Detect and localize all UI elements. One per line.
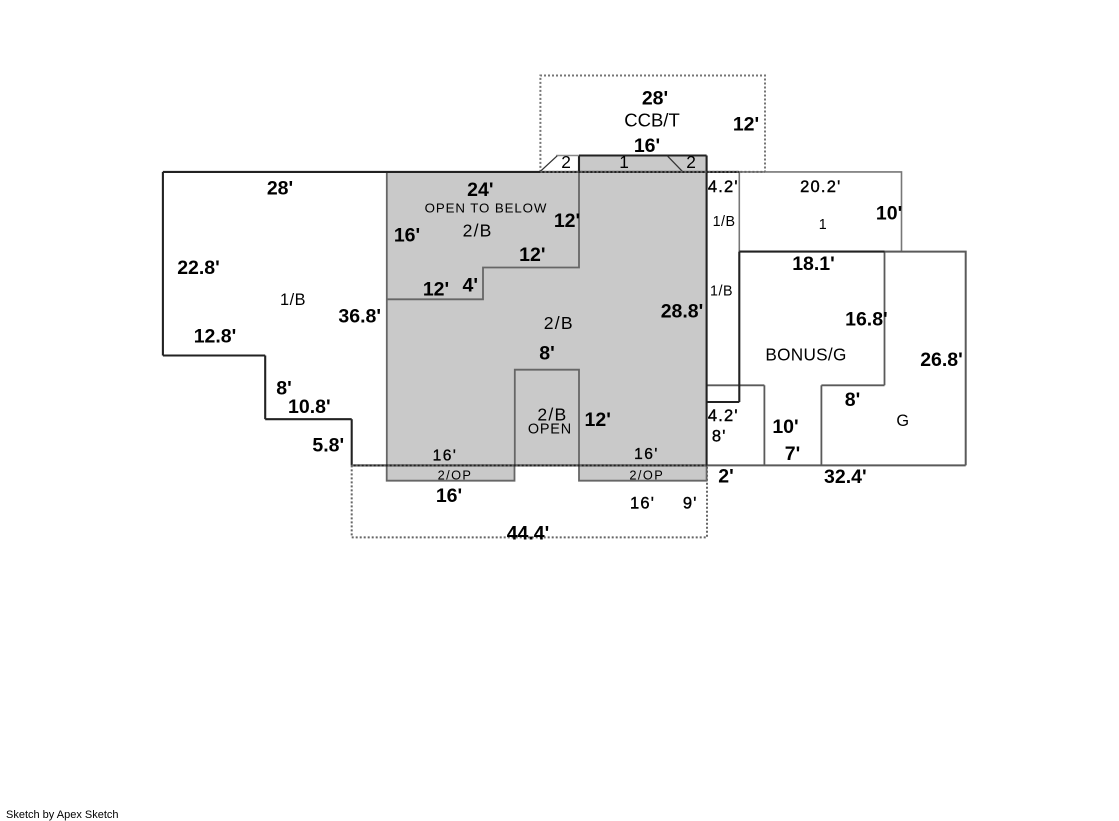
svg-text:8': 8' xyxy=(712,427,727,445)
svg-text:4': 4' xyxy=(463,275,478,297)
svg-text:4.2': 4.2' xyxy=(708,178,739,196)
svg-text:1/B: 1/B xyxy=(710,284,733,300)
svg-text:OPEN TO BELOW: OPEN TO BELOW xyxy=(425,201,548,216)
bump top edge xyxy=(579,154,707,156)
bonus notch left 10' xyxy=(763,385,765,465)
svg-text:10': 10' xyxy=(772,416,798,438)
step 12.8' xyxy=(163,354,265,356)
G bottom xyxy=(707,464,966,466)
2/B OPEN box xyxy=(515,370,579,466)
svg-text:16': 16' xyxy=(433,447,458,464)
bonus notch right 10' xyxy=(820,385,822,465)
svg-text:16.8': 16.8' xyxy=(845,309,888,331)
bonus top wall 18.1' xyxy=(739,251,884,253)
svg-text:10': 10' xyxy=(876,203,902,225)
svg-text:1/B: 1/B xyxy=(713,214,736,230)
svg-text:24': 24' xyxy=(467,179,493,201)
svg-text:12': 12' xyxy=(733,114,759,136)
svg-text:BONUS/G: BONUS/G xyxy=(765,345,846,365)
gray right 2/OP tab fill xyxy=(579,465,707,480)
area labels xyxy=(280,110,910,483)
garage G outline xyxy=(885,252,966,466)
bump diagonal right xyxy=(667,156,682,172)
svg-text:5.8': 5.8' xyxy=(312,435,344,457)
bonus/G right edge xyxy=(884,252,886,386)
right 2/OP tab outline xyxy=(579,465,707,480)
svg-text:28': 28' xyxy=(642,88,668,110)
gray second-floor fill 2/B main xyxy=(387,172,707,466)
dotted 44.4 rectangle xyxy=(352,172,765,538)
svg-text:26.8': 26.8' xyxy=(920,349,963,371)
svg-text:16': 16' xyxy=(436,485,462,507)
svg-text:16': 16' xyxy=(394,225,420,247)
bonus bottom left segment xyxy=(707,384,764,386)
gray area left edge xyxy=(386,172,388,466)
svg-text:1/B: 1/B xyxy=(280,291,306,309)
svg-text:16': 16' xyxy=(634,135,660,157)
gray bump fill (1-story section top) xyxy=(579,156,707,172)
svg-text:2/B: 2/B xyxy=(544,313,574,333)
svg-text:28.8': 28.8' xyxy=(661,301,704,323)
svg-text:2/OP: 2/OP xyxy=(438,467,473,482)
bottom main wall xyxy=(352,464,707,466)
svg-text:28': 28' xyxy=(267,178,293,200)
bump trapezoid top gray segment xyxy=(556,155,579,157)
svg-text:12': 12' xyxy=(585,409,611,431)
strip right wall xyxy=(738,252,740,402)
"1" rect left edge xyxy=(738,172,740,252)
top main wall xyxy=(163,171,739,173)
right main wall xyxy=(706,156,708,466)
svg-text:16': 16' xyxy=(634,446,659,463)
svg-text:1: 1 xyxy=(619,152,629,172)
svg-text:32.4': 32.4' xyxy=(824,466,867,488)
svg-text:2/OP: 2/OP xyxy=(629,467,664,482)
svg-text:10.8': 10.8' xyxy=(288,396,331,418)
first floor "1" rectangle top right xyxy=(739,172,901,252)
dotted CCB/T rectangle xyxy=(540,76,765,172)
step down 5.8' xyxy=(351,419,353,465)
svg-text:16': 16' xyxy=(630,495,655,513)
svg-text:2: 2 xyxy=(686,152,696,172)
main black walls xyxy=(163,156,885,466)
svg-text:OPEN: OPEN xyxy=(528,421,572,437)
svg-text:18.1': 18.1' xyxy=(792,253,835,275)
svg-text:22.8': 22.8' xyxy=(177,257,220,279)
step 10.8' xyxy=(265,418,352,420)
svg-text:G: G xyxy=(896,412,909,430)
svg-text:36.8': 36.8' xyxy=(338,306,381,328)
svg-text:2': 2' xyxy=(718,466,733,488)
svg-text:20.2': 20.2' xyxy=(800,178,841,196)
svg-text:Sketch by Apex Sketch: Sketch by Apex Sketch xyxy=(6,809,119,821)
svg-text:12.8': 12.8' xyxy=(194,326,237,348)
strip bottom step 4.2' xyxy=(707,401,740,403)
bump diagonal left xyxy=(540,156,557,172)
open-to-below outline xyxy=(387,172,579,299)
svg-text:12': 12' xyxy=(423,279,449,301)
svg-text:4.2': 4.2' xyxy=(708,407,739,425)
svg-text:CCB/T: CCB/T xyxy=(624,110,680,131)
svg-text:12': 12' xyxy=(554,210,580,232)
dimension labels xyxy=(177,88,963,545)
left 2/OP tab outline xyxy=(387,465,515,480)
svg-text:7': 7' xyxy=(785,443,800,465)
svg-text:12': 12' xyxy=(519,244,545,266)
svg-text:2: 2 xyxy=(561,152,571,172)
svg-text:8': 8' xyxy=(845,389,860,411)
svg-text:8': 8' xyxy=(539,343,554,365)
svg-text:1: 1 xyxy=(819,217,827,233)
left poly left edge 22.8' xyxy=(162,172,164,356)
bump inner vertical xyxy=(578,156,580,172)
step down 8' xyxy=(264,356,266,420)
svg-text:2/B: 2/B xyxy=(463,221,493,241)
svg-text:9': 9' xyxy=(683,495,698,513)
gray left 2/OP tab fill xyxy=(387,465,515,480)
svg-text:44.4': 44.4' xyxy=(507,523,550,545)
bonus bottom step 8' xyxy=(821,384,884,386)
